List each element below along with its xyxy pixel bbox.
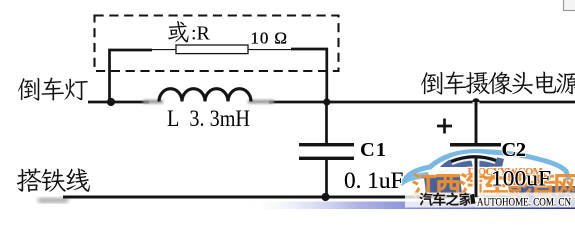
svg-text:0. 1uF: 0. 1uF (344, 168, 404, 193)
dashed option box (95, 16, 339, 72)
watermark big text 江西汽车影音网 (412, 172, 575, 198)
wire: bottom ground net (63, 196, 575, 199)
inductor L 3.3mH (143, 100, 163, 104)
label: 倒车灯 (reversing light) (18, 78, 39, 101)
gray fuzz at ground wire start (38, 199, 68, 203)
node: junction C1 bottom (321, 193, 329, 201)
ui corner box (564, 0, 575, 11)
resistor R 10ohm (176, 45, 248, 54)
autohome watermark halo band (405, 193, 575, 208)
capacitor C1 0.1uF (325, 102, 328, 197)
label: 倒车摄像头电源 (reversing camera power) (421, 72, 442, 95)
capacitor C2 100uF electrolytic (473, 102, 480, 194)
polarity plus mark (437, 119, 452, 134)
watermark: jxqcyyw.com car logo (245, 151, 575, 209)
svg-text:C1: C1 (360, 139, 386, 161)
svg-text:100uF: 100uF (491, 166, 551, 191)
label: 或:R (168, 21, 188, 42)
wire: ground net over watermark (63, 196, 409, 199)
node: junction C1 top (323, 98, 330, 105)
svg-text:10 Ω: 10 Ω (251, 29, 288, 48)
svg-text:AUTOHOME. COM. CN: AUTOHOME. COM. CN (477, 195, 571, 209)
svg-text:L 3. 3mH: L 3. 3mH (167, 106, 250, 131)
node: junction left (reversing light tap) (107, 98, 115, 106)
svg-text:C2: C2 (502, 139, 527, 161)
autohome logo mark (470, 194, 476, 205)
svg-text::R: :R (191, 23, 211, 45)
wire: resistor branch left elbow (110, 50, 153, 101)
wire: resistor branch right elbow (248, 49, 292, 51)
watermark text 汽车之家 (419, 192, 472, 205)
node: junction C2 top (472, 98, 480, 106)
label: 搭铁线 (chassis ground wire) (17, 168, 42, 192)
wire: top net (reversing light to camera supply) (88, 101, 575, 104)
